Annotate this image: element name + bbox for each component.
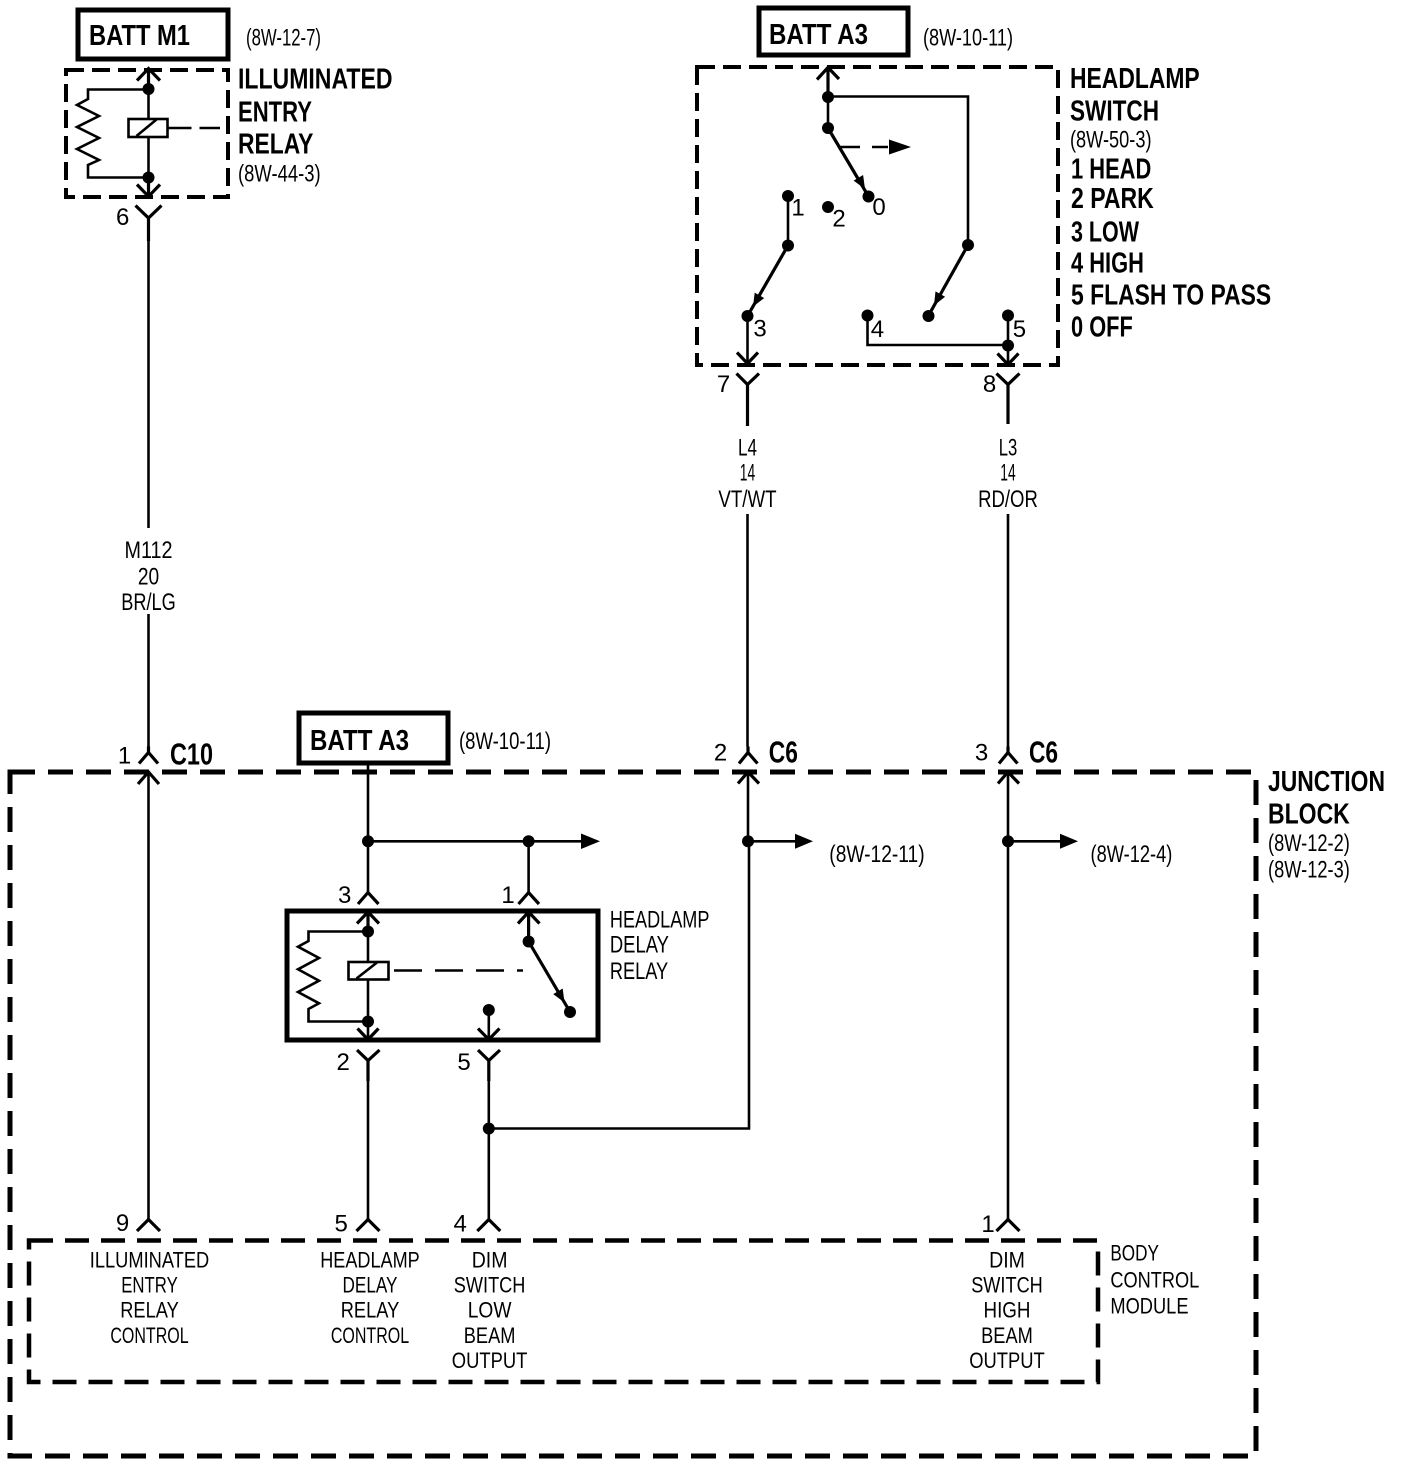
wire M112 upper segment [147,241,150,528]
relay K1 coil symbol [129,119,168,137]
svg-text:DIM: DIM [989,1248,1025,1273]
svg-text:2: 2 [832,206,845,233]
node: switch common feed junction [822,91,834,103]
connector half at relay K1 pin 6 [136,206,162,242]
component label HEADLAMP DELAY RELAY [610,907,710,985]
branch wire to (8W-12-4) [1008,840,1060,843]
svg-text:OUTPUT: OUTPUT [452,1348,528,1373]
svg-text:1: 1 [791,195,804,222]
wire L3 lower segment [1007,514,1010,747]
node: low beam junction [483,1123,495,1135]
node: relay K2 coil bottom [362,1016,374,1028]
wire: relay K2 pin 5 to BCM pin 4 [487,1081,490,1220]
wire M112 lower segment [147,614,150,747]
svg-text:5: 5 [335,1211,348,1238]
svg-text:(8W-10-11): (8W-10-11) [923,25,1013,52]
svg-text:RD/OR: RD/OR [978,486,1038,513]
node: low-beam wiper pivot [782,240,794,252]
svg-text:SWITCH: SWITCH [971,1273,1043,1298]
svg-text:BEAM: BEAM [981,1323,1033,1348]
wire: common contact down [487,1010,490,1038]
resistor R1 (relay K1 internal) [77,90,149,178]
svg-text:OUTPUT: OUTPUT [969,1348,1045,1373]
svg-text:C6: C6 [1029,735,1058,770]
contact dot at end of high-beam wiper [923,310,935,322]
connector half at BCM pin 5 [357,1220,380,1232]
component label ILLUMINATED ENTRY RELAY [238,63,393,160]
svg-text:HEADLAMP: HEADLAMP [610,907,710,934]
svg-text:DELAY: DELAY [343,1273,398,1298]
svg-text:(8W-50-3): (8W-50-3) [1070,126,1152,153]
relay K2 contact arrowhead [553,989,564,1003]
svg-text:BODY: BODY [1110,1241,1159,1266]
svg-text:1: 1 [118,743,131,770]
wire: junction to pin 8 [1007,346,1010,364]
wire: low beam junction to C6 cavity 2 drop [489,843,749,1129]
connector half at BCM pin 9 [137,1220,160,1232]
connector half at switch pin 8 [997,374,1020,425]
BCM circuit label: dim switch low beam output [452,1248,528,1374]
relay K2 contact arm [529,942,568,1009]
svg-text:BATT A3: BATT A3 [769,19,868,51]
svg-text:RELAY: RELAY [120,1297,179,1322]
terminal arrow up into BATT A3 feed [817,68,839,98]
wire: coil bottom to pin 2 [367,1022,370,1039]
svg-text:5 FLASH TO PASS: 5 FLASH TO PASS [1071,280,1271,312]
svg-text:RELAY: RELAY [238,128,313,160]
mechanical link dashed line to contacts [394,969,523,972]
component label HEADLAMP SWITCH [1070,63,1200,127]
low-beam wiper arm [750,246,789,313]
contact 3 [742,310,754,322]
fuse feed box BATT M1 [78,10,228,59]
svg-text:SWITCH: SWITCH [1070,95,1159,127]
node: high-beam wiper pivot [962,239,974,251]
wire: contact 3 to pin 7 [746,316,749,362]
svg-text:DELAY: DELAY [610,932,669,959]
svg-text:L3: L3 [999,434,1018,461]
wire: contact 4 strap to contact 5 [868,316,1009,346]
headlamp switch S1 dashed outline [697,67,1058,365]
contact 2 [822,201,834,213]
connector half at switch pin 7 [737,374,760,427]
svg-text:9: 9 [116,1210,129,1237]
fuse feed box BATT A3 (inside junction block) [299,713,448,763]
svg-text:4 HIGH: 4 HIGH [1071,247,1144,279]
svg-text:(8W-12-7): (8W-12-7) [246,24,321,51]
wiper arrowhead [854,175,865,189]
branch wire to (8W-12-11) [748,840,795,843]
node: relay K2 common contact [483,1004,495,1016]
low-beam wiper arrowhead [753,293,764,307]
wire label L4 14 VT/WT [718,434,776,513]
svg-text:ENTRY: ENTRY [121,1273,178,1298]
component label JUNCTION BLOCK [1268,766,1385,830]
terminal arrow up at relay K2 pin 3 [357,912,379,932]
svg-text:20: 20 [138,563,159,590]
terminal arrow down out of relay K1 [137,178,160,197]
wire: common junction to wiper pivot [827,97,830,128]
wire: common feed to right branch [828,97,968,246]
relay K2 box (headlamp delay relay) [287,911,598,1040]
wire: junction block internal from C10 to pin 9 [147,772,150,1220]
BCM circuit label: illuminated entry relay control [90,1248,209,1349]
connector half at relay K2 pin 2 [357,1050,380,1081]
terminal arrow down at pin 8 [998,354,1019,365]
connector C6 cavity 2 male arrow [738,772,759,784]
switch position legend [1071,153,1271,343]
wire: C6 cavity 3 drop [1007,772,1010,1220]
switch motion dashed arrow [838,140,911,155]
svg-text:2: 2 [714,740,727,767]
svg-text:0 OFF: 0 OFF [1071,312,1133,344]
contact 0 [863,191,875,203]
svg-text:C10: C10 [170,737,213,772]
wire: branch down to relay pin 1 [527,841,530,892]
branch arrowhead (8W-12-11) [795,834,813,849]
terminal arrow up into BATT M1 feed [137,69,160,90]
node: C6 cavity 3 branch junction [1002,835,1014,847]
svg-text:CONTROL: CONTROL [1110,1267,1199,1292]
wire L4 lower segment [746,514,749,747]
svg-text:8: 8 [983,371,996,398]
branch arrowhead continuing right [581,834,600,850]
branch arrowhead (8W-12-4) [1060,834,1078,849]
relay K2 coil symbol [349,962,389,980]
svg-text:(8W-12-2): (8W-12-2) [1268,830,1350,857]
wire: BATT A3 feed down [367,765,370,893]
BCM circuit label: dim switch high beam output [969,1248,1045,1374]
svg-text:BATT M1: BATT M1 [89,20,190,52]
node: relay K1 coil bottom junction [143,172,155,184]
wire: C6 cavity 2 drop upper [747,772,750,841]
wire: relay K2 pin 2 to BCM pin 5 [367,1081,370,1220]
node: feed branch junction left [362,835,374,847]
svg-text:6: 6 [116,204,129,231]
contact 5 [1002,310,1014,322]
connector C10 female half [139,747,158,764]
resistor R2 (relay K2 internal) [298,932,368,1022]
svg-text:JUNCTION: JUNCTION [1268,766,1385,798]
switch wiper arm to position 0 [828,128,867,193]
node: wiper pivot [822,122,834,134]
svg-text:ILLUMINATED: ILLUMINATED [238,63,393,95]
svg-text:3 LOW: 3 LOW [1071,216,1139,248]
connector C10 male arrow below junction block edge [138,772,159,784]
svg-text:2: 2 [337,1049,350,1076]
node: C6 cavity 2 branch junction [742,835,754,847]
svg-text:4: 4 [454,1211,467,1238]
node: relay K2 coil top [362,926,374,938]
connector half at delay relay pin 3 [358,893,379,905]
svg-text:MODULE: MODULE [1110,1294,1188,1319]
svg-text:CONTROL: CONTROL [331,1323,409,1348]
component label BODY CONTROL MODULE [1110,1241,1199,1319]
high-beam wiper arrowhead [934,291,945,305]
svg-text:14: 14 [740,460,755,487]
high-beam wiper arm [931,245,969,312]
connector half at delay relay pin 1 [519,893,540,905]
contact 1 [782,190,794,202]
node: relay K2 contact pivot [523,936,535,948]
connector C6 cavity 2 female half [739,747,758,764]
svg-text:1: 1 [981,1211,994,1238]
svg-text:DIM: DIM [472,1248,508,1273]
svg-text:4: 4 [871,316,884,343]
svg-text:0: 0 [872,194,885,221]
relay K1 dashed outline (illuminated entry relay) [66,70,228,197]
contact 4 [862,310,874,322]
svg-text:3: 3 [975,740,988,767]
svg-text:LOW: LOW [468,1297,512,1322]
svg-text:5: 5 [1013,316,1026,343]
svg-text:C6: C6 [769,735,798,770]
svg-text:BLOCK: BLOCK [1268,798,1350,830]
node: feed branch junction right [523,835,535,847]
wire: contact 1 to low-beam wiper pivot [787,196,790,246]
wire: relay K2 coil vertical [367,932,370,1022]
fuse feed box BATT A3 (top) [759,8,908,55]
svg-text:BATT A3: BATT A3 [310,725,409,757]
svg-text:1 HEAD: 1 HEAD [1071,153,1151,185]
connector C6 cavity 3 female half [999,747,1018,764]
svg-text:SWITCH: SWITCH [454,1273,526,1298]
svg-text:(8W-12-11): (8W-12-11) [829,841,924,868]
wire: coil vertical [147,89,150,178]
svg-text:ILLUMINATED: ILLUMINATED [90,1248,209,1273]
terminal arrow up at relay K2 pin 1 [518,912,540,942]
svg-text:1: 1 [501,882,514,909]
svg-text:3: 3 [338,882,351,909]
wire label L3 14 RD/OR [978,434,1038,513]
junction block dashed outline [10,772,1256,1456]
connector half at BCM pin 4 [477,1220,500,1232]
svg-text:ENTRY: ENTRY [238,96,312,128]
svg-text:M112: M112 [125,537,173,564]
connector C6 cavity 3 male arrow [998,772,1019,784]
svg-text:3: 3 [753,316,766,343]
svg-text:5: 5 [457,1049,470,1076]
connector half at BCM pin 1 [997,1220,1020,1232]
wire label M112 20 BR/LG [121,537,176,616]
svg-text:(8W-44-3): (8W-44-3) [238,160,321,187]
svg-text:RELAY: RELAY [610,958,668,985]
svg-text:VT/WT: VT/WT [718,486,776,513]
terminal arrow down at pin 7 [737,353,758,364]
svg-text:(8W-10-11): (8W-10-11) [459,728,551,755]
contact throw dot [564,1006,576,1018]
svg-text:(8W-12-3): (8W-12-3) [1268,857,1350,884]
svg-text:BEAM: BEAM [464,1323,516,1348]
svg-text:CONTROL: CONTROL [110,1323,188,1348]
svg-text:RELAY: RELAY [341,1297,400,1322]
mechanical link dash from coil [168,127,221,130]
node: strap junction below contact 5 [1002,340,1014,352]
node: relay K1 coil top junction [143,83,155,95]
connector half at relay K2 pin 5 [478,1050,500,1081]
svg-text:HEADLAMP: HEADLAMP [1070,63,1200,95]
terminal arrow down at relay K2 pin 2 [358,1029,379,1040]
wire: feed branch to the right [368,840,581,843]
svg-text:L4: L4 [738,434,757,461]
BCM circuit label: headlamp delay relay control [320,1248,420,1349]
svg-text:HEADLAMP: HEADLAMP [320,1248,420,1273]
svg-text:BR/LG: BR/LG [121,589,176,616]
terminal arrow down at relay K2 pin 5 [478,1029,500,1040]
body control module dashed outline [29,1241,1098,1383]
svg-text:HIGH: HIGH [984,1297,1031,1322]
svg-text:7: 7 [717,371,730,398]
svg-text:(8W-12-4): (8W-12-4) [1091,841,1173,868]
svg-text:14: 14 [1000,460,1015,487]
svg-text:2 PARK: 2 PARK [1071,183,1154,215]
